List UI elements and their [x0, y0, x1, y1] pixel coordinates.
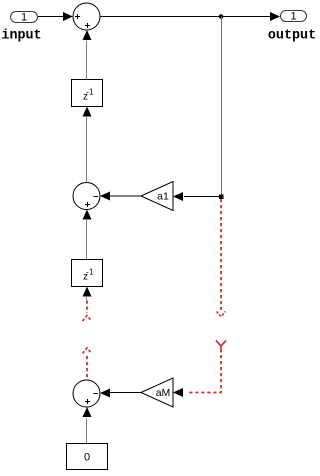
gain block a1: [141, 182, 173, 211]
wire input to sum1: [38, 16, 64, 18]
svg-text:1: 1: [21, 11, 27, 23]
svg-text:aM: aM: [156, 387, 171, 399]
sum block U1 top: [73, 3, 100, 30]
dashed wire continuation below delay2: [86, 301, 88, 314]
svg-text:0: 0: [84, 452, 90, 464]
svg-text:a1: a1: [157, 191, 169, 203]
dangling start mark above sum3: [83, 348, 92, 354]
constant block 0: [67, 444, 108, 470]
arrowhead into sum1 left: [63, 12, 73, 21]
arrowhead into output: [270, 12, 280, 21]
arrowhead into gain a1: [173, 192, 183, 201]
dashed wire sum3 output up: [86, 356, 88, 380]
svg-text:input: input: [1, 29, 41, 44]
svg-text:output: output: [268, 29, 316, 44]
junction dot node B: [219, 195, 224, 200]
svg-text:-1: -1: [86, 87, 94, 97]
arrowhead into delay1 bottom: [83, 107, 92, 117]
svg-text:-1: -1: [86, 267, 94, 277]
arrowhead into sum1 bottom: [83, 30, 92, 40]
arrowhead into gain aM: [173, 388, 183, 397]
wire node A down to node B: [221, 17, 223, 197]
gain block aM: [141, 378, 173, 407]
wire sum1 to output: [100, 16, 271, 18]
inport block input: [11, 11, 38, 23]
wire node B to gain a1: [184, 196, 221, 198]
delay block z1 first: [72, 80, 103, 107]
arrowhead into sum2 right: [100, 192, 110, 201]
wire gain aM to sum3: [110, 392, 141, 394]
wire gain a1 to sum2: [110, 195, 141, 197]
svg-text:1: 1: [290, 10, 296, 22]
wire sum2 up to delay1: [86, 117, 88, 183]
dangling start mark right lower: [216, 341, 226, 353]
wire delay2 to sum2: [86, 220, 88, 260]
dashed wire node B down: [220, 199, 222, 310]
arrowhead into sum3 right: [100, 389, 110, 398]
sum block U2 middle: [73, 183, 100, 210]
dangling end mark right upper: [217, 312, 226, 317]
wire constant to sum3: [86, 418, 88, 444]
outport block output: [281, 10, 307, 22]
arrowhead into sum2 bottom: [83, 210, 92, 220]
junction dot node A: [219, 14, 224, 19]
wire stub below delay2: [86, 297, 88, 300]
wire delay1 to sum1: [86, 41, 88, 80]
delay block z1 second: [72, 260, 103, 287]
sum block U3 bottom: [73, 380, 100, 407]
arrowhead into delay2 bottom: [83, 287, 92, 297]
dangling end mark below delay2: [83, 316, 92, 322]
arrowhead into sum3 bottom: [83, 407, 92, 417]
dashed wire down to gain aM: [187, 355, 221, 393]
